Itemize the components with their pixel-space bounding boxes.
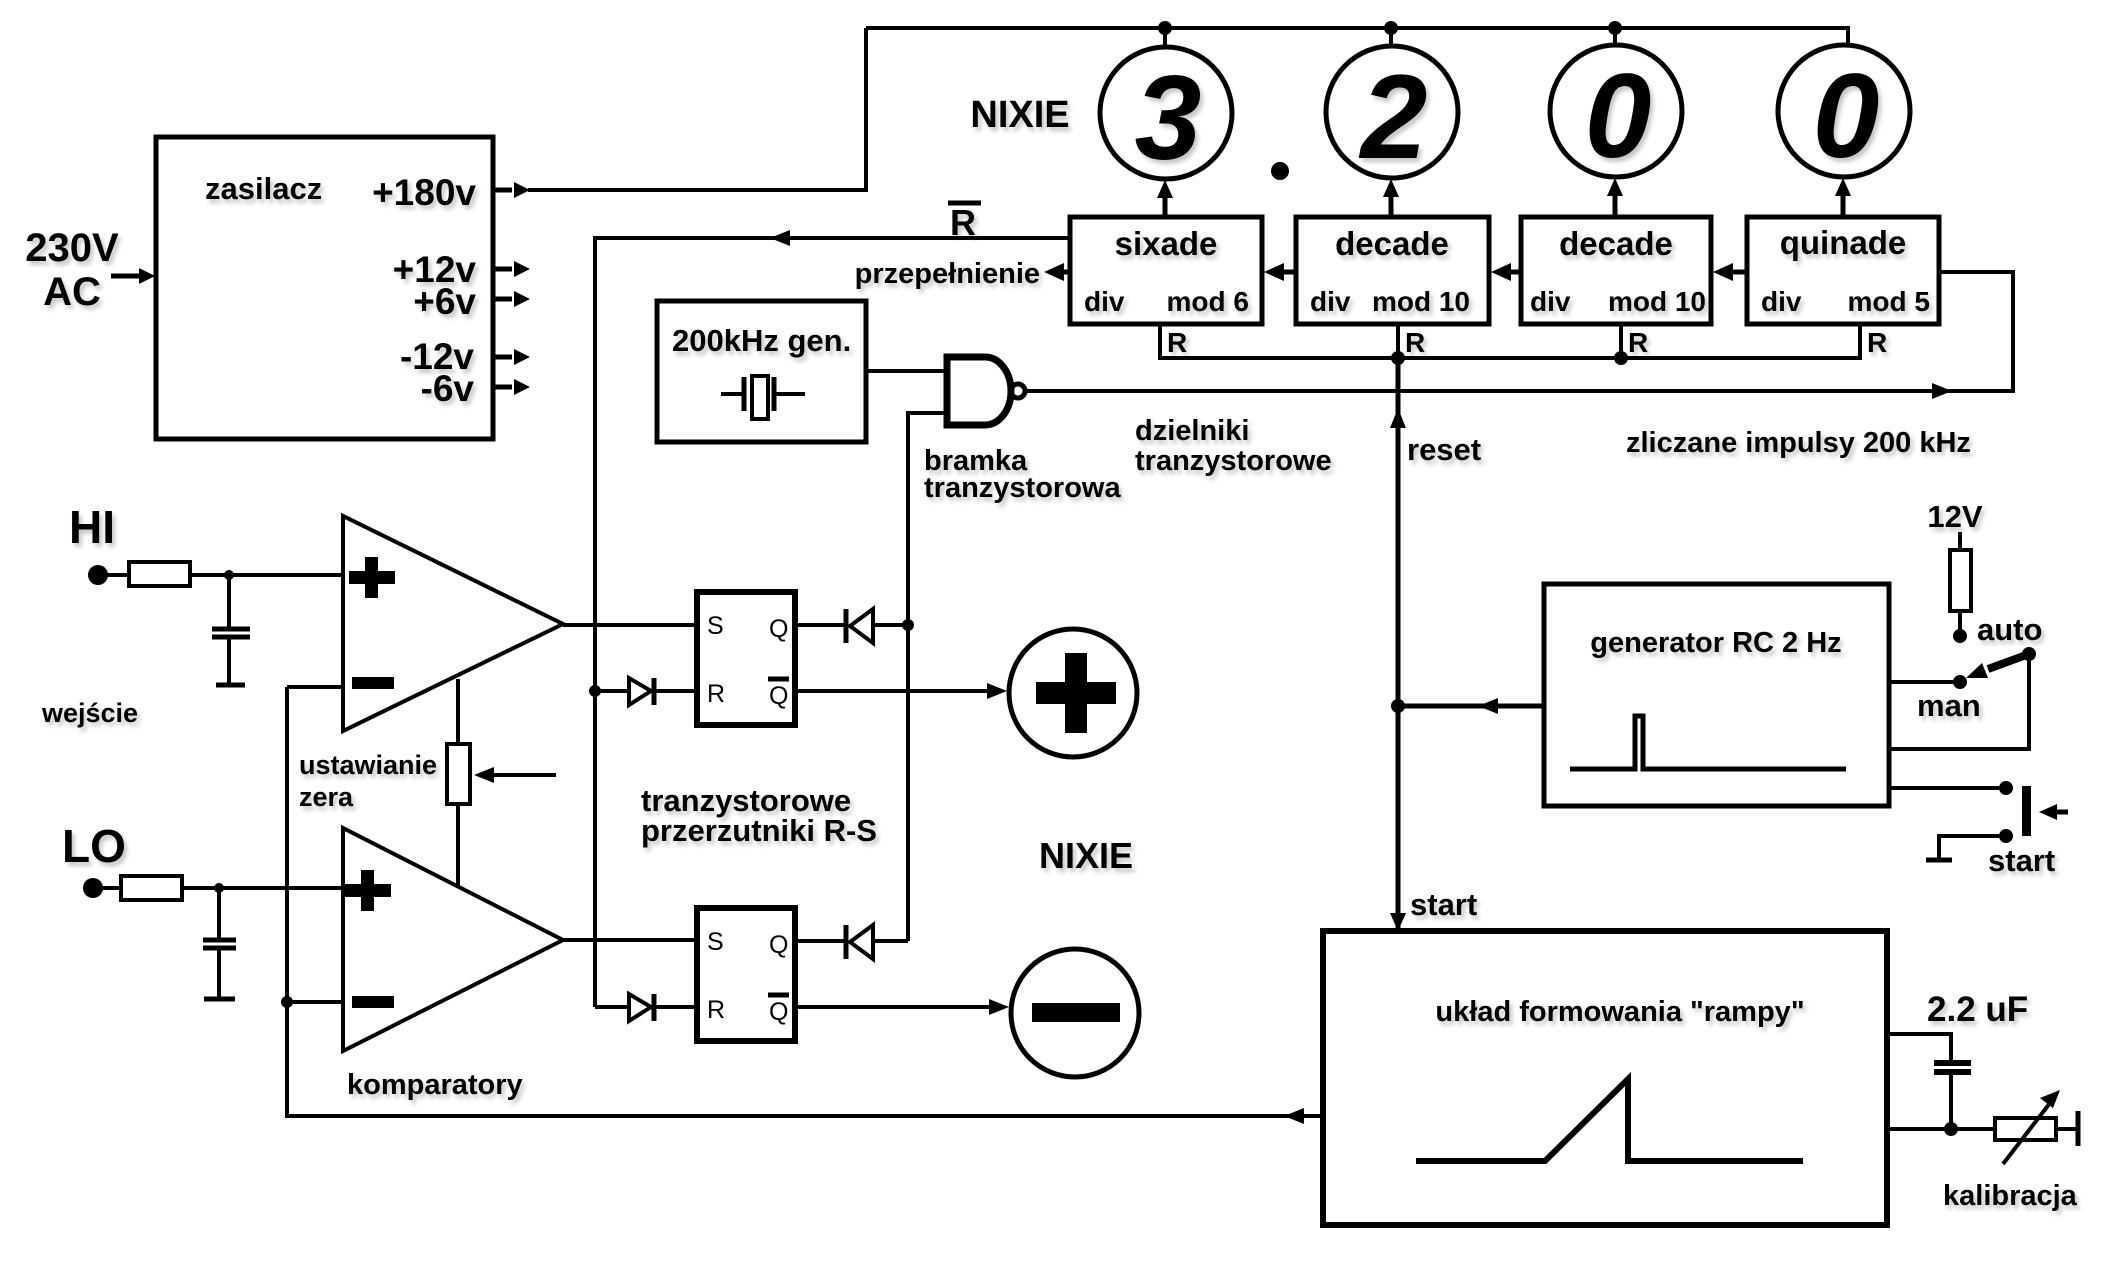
wire HI input bbox=[98, 573, 343, 577]
plus input symbol A2 bbox=[345, 884, 391, 897]
svg-text:0: 0 bbox=[1813, 49, 1880, 183]
nixie tube digit 2 bbox=[1326, 46, 1458, 178]
wire generator output to reset line bbox=[1398, 704, 1544, 709]
svg-text:R: R bbox=[1628, 327, 1648, 358]
terminal LO input dot bbox=[83, 878, 103, 898]
node junction dot tube2 bbox=[1384, 21, 1398, 35]
svg-text:2.2 uF: 2.2 uF bbox=[1927, 990, 2028, 1029]
terminal auto contact dot bbox=[1953, 629, 1967, 643]
svg-text:decade: decade bbox=[1335, 225, 1449, 262]
svg-text:S: S bbox=[707, 928, 724, 956]
resistor R-auto bbox=[1950, 550, 1971, 611]
node junction decade2 R bbox=[1614, 351, 1628, 365]
potentiometer zero adjust bbox=[456, 679, 460, 887]
counter U4 quinade box bbox=[1747, 217, 1939, 324]
SECTION: rc generator bbox=[1391, 499, 2068, 878]
counter U3 decade box bbox=[1521, 217, 1711, 324]
svg-text:mod 10: mod 10 bbox=[1608, 286, 1706, 317]
wire 230V AC input arrow bbox=[111, 274, 141, 279]
svg-text:+180v: +180v bbox=[372, 172, 476, 213]
svg-text:generator RC 2 Hz: generator RC 2 Hz bbox=[1590, 627, 1841, 659]
plus input symbol A1 bbox=[349, 571, 395, 584]
svg-text:zasilacz: zasilacz bbox=[205, 171, 322, 206]
svg-text:man: man bbox=[1917, 688, 1981, 723]
svg-text:NIXIE: NIXIE bbox=[970, 94, 1069, 136]
svg-text:kalibracja: kalibracja bbox=[1943, 1180, 2078, 1212]
wire arrow quinade to decade2 bbox=[1733, 270, 1747, 275]
minus input symbol A2 bbox=[352, 996, 394, 1008]
svg-text:3: 3 bbox=[1135, 51, 1202, 185]
svg-text:auto: auto bbox=[1977, 612, 2042, 647]
crystal X1 symbol bbox=[721, 392, 742, 396]
svg-text:200kHz gen.: 200kHz gen. bbox=[672, 323, 851, 358]
wire calibration to terminal bbox=[2056, 1127, 2076, 1131]
wire top anode bus bbox=[866, 28, 1848, 45]
svg-text:mod 6: mod 6 bbox=[1167, 286, 1249, 317]
diode D1 into FF1 R bbox=[595, 689, 629, 693]
wire reset vertical line bbox=[1396, 358, 1401, 931]
svg-text:zera: zera bbox=[299, 782, 354, 812]
svg-text:wejście: wejście bbox=[41, 698, 138, 728]
wire A2 output to FF2 S bbox=[563, 938, 697, 942]
wire counting pulse line into quinade bbox=[1026, 272, 2013, 391]
svg-text:start: start bbox=[1988, 843, 2055, 878]
svg-text:R: R bbox=[707, 680, 725, 708]
counter U2 decade box bbox=[1296, 217, 1489, 324]
svg-text:dzielniki: dzielniki bbox=[1135, 415, 1249, 447]
svg-text:+6v: +6v bbox=[413, 281, 476, 322]
wire stub to tube 1 bbox=[1163, 28, 1167, 47]
svg-text:HI: HI bbox=[69, 501, 115, 553]
wire R-bar line from sixade to flipflop column bbox=[595, 238, 1070, 1007]
wire FF2 Q-bar to minus lamp bbox=[795, 1005, 1002, 1009]
node junction FF1 Q to gate line bbox=[902, 619, 914, 631]
wire FF1 Q-bar to plus lamp bbox=[795, 689, 1000, 693]
wire przepelnienie arrow out of sixade bbox=[1062, 270, 1070, 275]
svg-text:układ formowania "rampy": układ formowania "rampy" bbox=[1435, 996, 1804, 1028]
svg-text:sixade: sixade bbox=[1115, 225, 1218, 262]
node junction dot tube1 bbox=[1158, 21, 1172, 35]
capacitor C-LO bbox=[217, 888, 221, 938]
terminal HI input dot bbox=[88, 565, 108, 585]
svg-text:R: R bbox=[707, 996, 725, 1024]
svg-text:R: R bbox=[1167, 327, 1187, 358]
arrow push indicator bbox=[2055, 810, 2068, 815]
svg-text:0: 0 bbox=[1585, 49, 1652, 183]
wire lower contact to ground bbox=[1939, 836, 1999, 858]
SECTION: power supply bbox=[25, 28, 866, 439]
svg-text:Q: Q bbox=[769, 682, 788, 710]
node junction capacitor to calibration bbox=[1944, 1122, 1958, 1136]
nixie minus lamp bbox=[1011, 949, 1139, 1077]
wiper arrow of potentiometer bbox=[492, 773, 556, 777]
node junction R-bar to D1 bbox=[589, 685, 601, 697]
wire ramp output stub to capacitor bbox=[1887, 1034, 1951, 1061]
flip-flop FF1 box bbox=[697, 592, 795, 725]
wire man contact to generator bbox=[1889, 680, 1953, 684]
wire arrow decade1 to sixade bbox=[1282, 270, 1296, 275]
svg-text:ustawianie: ustawianie bbox=[299, 750, 437, 780]
wire -12v output arrow bbox=[493, 355, 512, 360]
resistor R-HI bbox=[129, 562, 190, 586]
nixie tube digit 0 (fourth) bbox=[1778, 45, 1910, 177]
nand gate U5 bramka tranzystorowa bbox=[947, 357, 1011, 425]
wire +6v output arrow bbox=[493, 297, 512, 302]
wire arrow decade2 to decade1 bbox=[1508, 270, 1521, 275]
wire arrow quinade to tube4 bbox=[1841, 196, 1846, 217]
svg-text:tranzystorowe: tranzystorowe bbox=[1135, 445, 1332, 477]
svg-text:mod 5: mod 5 bbox=[1848, 286, 1930, 317]
svg-text:przerzutniki R-S: przerzutniki R-S bbox=[641, 813, 877, 848]
wire stub to tube 3 bbox=[1613, 28, 1617, 47]
wire A2 minus input bbox=[287, 1000, 343, 1004]
wire gate lower input from flipflop column bbox=[908, 413, 947, 941]
flip-flop FF2 box bbox=[697, 908, 795, 1041]
svg-text:Q: Q bbox=[769, 931, 788, 959]
wire ramp lower stub to calibration bbox=[1887, 1127, 1995, 1131]
svg-text:div: div bbox=[1084, 286, 1125, 317]
svg-text:start: start bbox=[1410, 887, 1477, 922]
svg-text:AC: AC bbox=[43, 270, 101, 314]
nixie plus lamp bbox=[1009, 629, 1137, 757]
op-amp comparator A1 (HI) bbox=[343, 516, 563, 731]
svg-text:przepełnienie: przepełnienie bbox=[855, 258, 1040, 290]
wire feedback line from ramp to comparators bbox=[287, 687, 1323, 1116]
start button lower contact bbox=[1999, 829, 2013, 843]
capacitor C-HI bbox=[227, 575, 231, 627]
node junction generator to reset bbox=[1391, 699, 1405, 713]
wire arrow sixade to tube1 bbox=[1163, 196, 1168, 217]
SECTION: nixie display top bbox=[866, 21, 1910, 217]
wire arrow decade2 to tube3 bbox=[1613, 196, 1618, 217]
svg-text:div: div bbox=[1310, 286, 1351, 317]
svg-text:12V: 12V bbox=[1927, 499, 1982, 534]
svg-text:tranzystorowa: tranzystorowa bbox=[924, 472, 1121, 504]
wire A1 output to FF1 S bbox=[563, 623, 697, 627]
svg-text:komparatory: komparatory bbox=[347, 1069, 523, 1101]
diode D2 from FF1 Q bbox=[795, 623, 844, 627]
wire -6v output arrow bbox=[493, 385, 512, 390]
wire R reset bus under counters bbox=[1160, 324, 1860, 358]
variable resistor kalibracja bbox=[1995, 1118, 2056, 1140]
power supply box zasilacz bbox=[156, 137, 493, 439]
svg-text:mod 10: mod 10 bbox=[1372, 286, 1470, 317]
resistor R-LO bbox=[121, 876, 182, 900]
svg-text:quinade: quinade bbox=[1780, 224, 1907, 261]
svg-text:zliczane impulsy 200 kHz: zliczane impulsy 200 kHz bbox=[1626, 427, 1971, 459]
svg-text:LO: LO bbox=[62, 820, 126, 872]
svg-text:S: S bbox=[707, 612, 724, 640]
wire 12V to resistor bbox=[1958, 532, 1962, 550]
capacitor 2.2uF bbox=[1934, 1060, 1971, 1066]
pulse waveform icon bbox=[1570, 716, 1846, 769]
nixie tube digit 0 (third) bbox=[1550, 45, 1682, 177]
svg-text:decade: decade bbox=[1559, 225, 1673, 262]
svg-text:R: R bbox=[1867, 327, 1887, 358]
switch arm auto/man bbox=[1988, 654, 2029, 669]
terminal man contact dot bbox=[1953, 675, 1967, 689]
ramp generator box uklad formowania rampy bbox=[1323, 931, 1887, 1225]
wire switch pole to generator bbox=[1889, 654, 2029, 749]
wire R stub decade1 bbox=[1396, 324, 1400, 358]
wire +12v output arrow bbox=[493, 267, 512, 272]
node junction dot tube3 bbox=[1608, 21, 1622, 35]
wire LO input bbox=[93, 886, 343, 890]
SECTION: ramp bbox=[1323, 931, 2078, 1225]
diode D3 into FF2 R bbox=[595, 1005, 629, 1009]
start button bar bbox=[2022, 786, 2031, 836]
wire start button upper contact bbox=[1889, 786, 1999, 790]
generator RC 2 Hz box bbox=[1544, 584, 1889, 806]
op-amp comparator A2 (LO) bbox=[343, 828, 563, 1051]
svg-text:-6v: -6v bbox=[421, 368, 475, 409]
node HI filter junction bbox=[224, 570, 234, 580]
wire resistor to auto contact bbox=[1958, 611, 1962, 630]
minus input symbol A1 bbox=[352, 677, 394, 689]
SECTION: flipflops bbox=[589, 592, 1139, 1077]
wire R stub decade2 bbox=[1619, 324, 1623, 358]
svg-text:div: div bbox=[1761, 286, 1802, 317]
wire +180v output to top bus bbox=[493, 188, 512, 193]
SECTION: inputs and comparators bbox=[41, 501, 1323, 1124]
svg-text:Q: Q bbox=[769, 615, 788, 643]
counter U1 sixade box bbox=[1070, 217, 1262, 324]
nixie tube digit 3 bbox=[1100, 47, 1232, 179]
wire arrow decade1 to tube2 bbox=[1389, 196, 1394, 217]
wire A1 minus input bbox=[287, 685, 343, 689]
node junction decade1 R bbox=[1391, 351, 1405, 365]
decimal point bbox=[1271, 162, 1289, 180]
svg-text:div: div bbox=[1530, 286, 1571, 317]
svg-text:2: 2 bbox=[1359, 50, 1428, 184]
svg-text:230V: 230V bbox=[25, 226, 119, 270]
SECTION: clock gen and gate bbox=[657, 301, 1332, 941]
oscillator box 200kHz gen. bbox=[657, 301, 866, 442]
svg-text:Q: Q bbox=[769, 998, 788, 1026]
node LO filter junction bbox=[214, 883, 224, 893]
SECTION: counters bbox=[595, 202, 2013, 1007]
wire oscillator to gate input bbox=[866, 369, 947, 373]
ramp waveform icon bbox=[1416, 1079, 1803, 1161]
ground bbox=[1926, 858, 1952, 863]
wire stub to tube 2 bbox=[1389, 28, 1393, 47]
svg-text:reset: reset bbox=[1407, 432, 1481, 467]
svg-text:NIXIE: NIXIE bbox=[1039, 835, 1133, 876]
diode D4 from FF2 Q bbox=[795, 939, 844, 943]
node A2 minus junction on feedback line bbox=[281, 996, 293, 1008]
svg-text:R: R bbox=[1405, 327, 1425, 358]
